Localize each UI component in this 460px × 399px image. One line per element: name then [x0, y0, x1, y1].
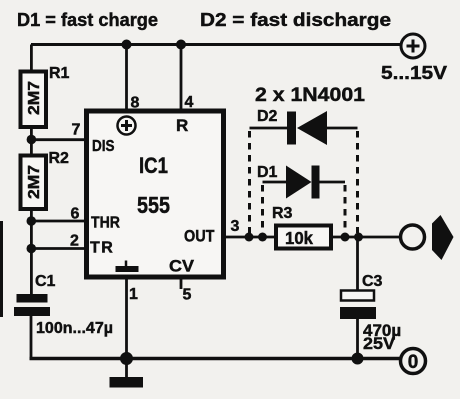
capacitor C1 — [14, 294, 50, 316]
terminal: + supply — [401, 34, 425, 58]
node: junction TR — [27, 244, 37, 254]
svg-text:2M7: 2M7 — [26, 165, 43, 199]
wire: OUT pin 3 to R3 — [224, 236, 276, 239]
wire: dashed D2 left — [248, 131, 251, 233]
node: junction pin1/ground — [120, 352, 133, 365]
svg-text:R: R — [176, 116, 188, 135]
terminal: 0 — [401, 349, 426, 374]
node: dot left outer — [245, 233, 254, 242]
svg-text:1: 1 — [129, 286, 138, 303]
svg-text:6: 6 — [71, 206, 80, 223]
svg-text:8: 8 — [131, 95, 140, 112]
output arrow — [432, 215, 454, 260]
svg-text:DIS: DIS — [92, 138, 115, 155]
svg-text:7: 7 — [72, 122, 81, 139]
svg-text:IC1: IC1 — [139, 153, 168, 178]
diode D1 — [263, 166, 346, 199]
node: junction THR — [27, 216, 37, 226]
svg-text:5...15V: 5...15V — [381, 63, 447, 83]
pin 5 stub — [180, 278, 183, 289]
capacitor C3 (electrolytic) — [340, 291, 376, 320]
wire: bottom ground rail — [30, 357, 401, 361]
wire: pin 4 from rail to IC — [180, 45, 183, 111]
wire: R2 down to C1 — [30, 210, 33, 295]
scan artifact left edge — [0, 221, 3, 317]
svg-text:TR: TR — [90, 240, 114, 257]
svg-text:C1: C1 — [35, 273, 56, 290]
svg-text:100n...47µ: 100n...47µ — [36, 320, 113, 337]
svg-text:2 x 1N4001: 2 x 1N4001 — [255, 85, 365, 106]
svg-text:4: 4 — [185, 94, 194, 111]
svg-text:D1 = fast charge: D1 = fast charge — [17, 10, 158, 30]
resistor R2 — [21, 156, 47, 210]
svg-text:25V: 25V — [363, 334, 396, 353]
wire: to TR pin 2 — [31, 247, 86, 250]
wire: to THR pin 6 — [31, 220, 86, 223]
node: junction C3/ground rail — [352, 353, 364, 365]
svg-text:D1: D1 — [257, 164, 278, 181]
svg-text:THR: THR — [91, 215, 120, 232]
node: dot left inner — [258, 233, 267, 242]
svg-text:R3: R3 — [272, 205, 293, 222]
wire: pin 8 from rail to IC — [125, 45, 128, 111]
wire: R1 to R2 — [30, 127, 33, 155]
IC1 internal ground tab — [116, 261, 139, 273]
svg-text:5: 5 — [183, 287, 192, 304]
wire: left vertical from rail to R1 — [30, 45, 33, 72]
node: dot right outer — [354, 233, 363, 242]
resistor R1 — [21, 72, 47, 128]
svg-text:R1: R1 — [49, 65, 70, 82]
wire: junction down to C3 — [356, 237, 359, 291]
svg-text:555: 555 — [137, 192, 170, 218]
svg-text:2: 2 — [70, 233, 79, 250]
terminal: output circle — [401, 225, 425, 249]
wire: to DIS pin 7 — [31, 138, 86, 141]
ground — [110, 359, 144, 388]
node: junction R1/R2/pin7 — [27, 135, 37, 145]
svg-text:0: 0 — [408, 352, 419, 373]
wire: R3 to output terminal — [333, 236, 401, 239]
wire: pin 1 down to rail — [125, 278, 128, 359]
svg-text:2M7: 2M7 — [26, 81, 43, 115]
svg-text:CV: CV — [169, 257, 195, 276]
svg-text:3: 3 — [231, 218, 240, 235]
wire: C1 down to ground rail — [30, 316, 33, 359]
wire: top supply rail — [31, 43, 401, 46]
node: junction pin8 on top rail — [122, 40, 132, 50]
node: junction pin4 on top rail — [176, 40, 186, 50]
wire: dashed D1 right — [344, 185, 347, 233]
wire: dashed D1 left — [261, 185, 264, 233]
svg-text:C3: C3 — [362, 273, 383, 290]
svg-text:10k: 10k — [285, 228, 313, 248]
node: dot right inner — [341, 233, 350, 242]
wire: dashed D2 right — [356, 131, 359, 233]
svg-text:R2: R2 — [49, 150, 70, 167]
IC1 internal + symbol — [118, 117, 136, 135]
svg-text:D2 = fast discharge: D2 = fast discharge — [200, 10, 391, 30]
resistor R3 — [276, 226, 331, 249]
wire: C3 to ground rail — [356, 319, 359, 359]
svg-text:D2: D2 — [257, 108, 278, 125]
diode D2 — [250, 111, 358, 145]
svg-text:OUT: OUT — [184, 227, 215, 246]
op-amp / timer IC1 box — [87, 111, 224, 277]
